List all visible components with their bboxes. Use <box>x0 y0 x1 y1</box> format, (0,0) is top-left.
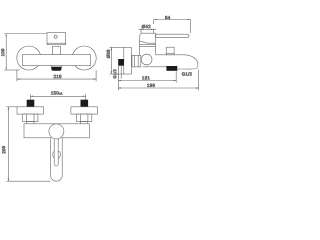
right union nut (top) <box>77 114 92 122</box>
dim 218 line <box>17 70 96 81</box>
right escutcheon (top) <box>71 107 98 114</box>
cartridge housing (front) <box>52 47 60 55</box>
lever handle (side) <box>156 34 190 37</box>
svg-text:150±1: 150±1 <box>51 90 63 95</box>
left wall anchor (dark) <box>27 100 35 107</box>
aerator tip (dark) <box>51 67 61 71</box>
bracket hole <box>54 35 57 38</box>
spout capsule (top) <box>51 138 63 181</box>
left union nut (top) <box>23 114 38 122</box>
svg-text:209: 209 <box>1 145 6 153</box>
body sphere (side) <box>141 54 152 65</box>
wall escutcheon (side) <box>124 47 132 74</box>
G1/2 thread lines (left) <box>118 66 121 79</box>
union nut hex <box>132 55 141 67</box>
svg-text:109: 109 <box>0 48 5 56</box>
dim 131 <box>118 71 176 83</box>
cartridge dome (side) <box>139 33 155 45</box>
svg-text:196: 196 <box>147 83 156 88</box>
dim 209 <box>7 107 51 181</box>
lever shaft (top) <box>54 139 58 166</box>
body bar (top) <box>24 124 89 138</box>
svg-text:G1/2: G1/2 <box>112 68 117 78</box>
svg-text:G1/2: G1/2 <box>182 71 193 76</box>
svg-text:Ø42: Ø42 <box>142 24 152 29</box>
dome bottom slant <box>139 41 155 43</box>
dim 196 <box>118 67 198 91</box>
svg-text:94: 94 <box>165 15 171 20</box>
svg-text:218: 218 <box>53 74 62 79</box>
spout (front) <box>51 66 62 68</box>
left escutcheon circle <box>17 46 41 70</box>
wall bracket <box>47 33 66 45</box>
dim O88 <box>110 47 124 74</box>
right escutcheon circle <box>72 46 96 70</box>
shower outlet (dark) <box>166 66 177 71</box>
svg-text:Ø88: Ø88 <box>106 49 111 58</box>
body column (side) <box>138 45 140 56</box>
spout (side) <box>156 55 198 69</box>
eccentric union (dark) <box>118 59 124 66</box>
left neck <box>27 122 34 124</box>
spout underside <box>143 66 167 68</box>
right wall anchor (dark) <box>81 100 89 107</box>
dim 150+-1 <box>30 94 85 99</box>
dim 94 <box>154 19 191 33</box>
knob base line <box>166 52 174 54</box>
dim 109 line <box>4 34 47 71</box>
cartridge dome circle (top) <box>49 124 64 139</box>
diverter knob <box>166 47 174 55</box>
left escutcheon (top) <box>17 107 44 114</box>
body bar (front) <box>23 55 91 66</box>
body column band <box>139 45 155 47</box>
lever bulge <box>53 151 61 158</box>
right neck <box>81 122 88 124</box>
dim O42 <box>139 29 157 33</box>
svg-text:131: 131 <box>142 75 151 80</box>
